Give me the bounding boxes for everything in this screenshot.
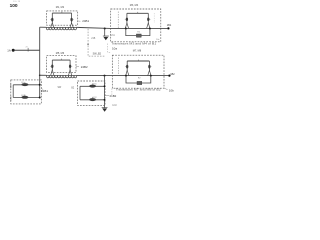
shunt box lower middle dashed (78, 81, 106, 106)
svg-text:GN2: GN2 (112, 105, 117, 107)
inner dashed line right faint (153, 13, 155, 23)
svg-text:SW_B2: SW_B2 (93, 52, 102, 55)
wire gate bar upper right (127, 12, 148, 14)
svg-text:M1, M2: M1, M2 (56, 6, 65, 9)
inductor L2 bottom meander (47, 75, 77, 78)
wire shunt row 2 (13, 97, 40, 99)
node bus row2 (39, 97, 41, 99)
label 21B2 leader (105, 95, 109, 97)
svg-text:M10: M10 (21, 95, 25, 97)
wire top ground stub (104, 28, 106, 36)
svg-text:FIG. 1B: FIG. 1B (13, 1, 21, 3)
dashed line node blob (88, 44, 89, 45)
dashed remnant below lower box (111, 89, 113, 96)
output node 1B2 (168, 74, 170, 76)
wire input (15, 49, 40, 51)
node bypass right (149, 27, 151, 29)
transistor M9 (21, 82, 28, 86)
svg-text:M3, M4: M3, M4 (130, 4, 139, 7)
transistor M12 (89, 97, 96, 101)
svg-text:SW2: SW2 (9, 96, 11, 102)
label 24B2 leader (76, 65, 79, 67)
svg-text:1A: 1A (7, 49, 11, 53)
svg-text:10b: 10b (169, 88, 174, 92)
wire bottom shunt bus (104, 76, 106, 108)
svg-text:M11: M11 (93, 83, 97, 85)
transistor M3 (125, 13, 129, 28)
switch box upper right dashed (111, 9, 161, 42)
wire bypass loop lower (126, 76, 151, 83)
svg-text:1B2: 1B2 (170, 73, 175, 76)
svg-text:Transistors M7 and M8 of B2: Transistors M7 and M8 of B2 (116, 88, 162, 92)
wire bus vertical (39, 27, 41, 97)
svg-text:M5, M6: M5, M6 (56, 52, 65, 55)
wire bottom main line (40, 74, 169, 76)
leader to 10b (164, 88, 168, 89)
switch box SW_B1 dashed (47, 11, 78, 25)
ground top (103, 36, 109, 40)
dashed remnant left of 10a (108, 44, 112, 53)
switch box SW_B2 dashed (lower middle series) (47, 56, 76, 73)
inner dashed line left lower (118, 58, 120, 75)
resistor R2 (137, 81, 142, 84)
transistor M4 (147, 13, 151, 28)
output node 1B1 (167, 27, 169, 29)
wire shunt row 3 (80, 85, 105, 87)
transistor M1 (50, 13, 54, 28)
input terminal dot (12, 49, 15, 52)
inner dashed line left (117, 12, 119, 29)
node bus row1 (39, 84, 41, 86)
transistor M10 (21, 95, 28, 99)
node tick 28 (27, 48, 29, 52)
svg-text:1B1: 1B1 (167, 24, 172, 27)
wire left rail (12, 85, 14, 98)
node bus row4 (104, 99, 106, 101)
svg-text:M9: M9 (21, 82, 24, 84)
wire bypass loop upper (126, 28, 150, 35)
svg-text:M7, M8: M7, M8 (133, 50, 142, 53)
transistor M2 (70, 13, 74, 28)
dashed control line vertical (88, 29, 105, 56)
node bypass right lower (150, 75, 152, 77)
svg-text:Transistors M3 and M4 of B1: Transistors M3 and M4 of B1 (111, 41, 157, 45)
svg-text:M12: M12 (93, 97, 97, 99)
wire gate bar top cell (52, 12, 71, 14)
svg-text:10a: 10a (112, 47, 117, 51)
node bottom shunt (104, 75, 106, 77)
shunt box lower left dashed (11, 80, 42, 104)
wire left rail 2 (79, 86, 81, 100)
transistor M11 (89, 83, 96, 87)
wire gate bar lower right (127, 60, 149, 62)
node bottom tee (39, 74, 41, 76)
node bypass left (125, 27, 127, 29)
svg-text:SW1: SW1 (9, 84, 11, 90)
ground bottom (102, 108, 108, 112)
node bus row3 (104, 85, 106, 87)
transistor M5 (50, 60, 54, 76)
wire shunt row 1 (13, 84, 40, 86)
svg-text:21B2: 21B2 (110, 94, 117, 98)
node top shunt (104, 27, 106, 29)
label 21B1 leader (41, 88, 43, 90)
svg-text:24B2: 24B2 (81, 65, 88, 69)
transistor M6 (68, 60, 72, 76)
resistor R1 (136, 34, 141, 37)
transistor M7 (125, 61, 129, 76)
svg-text:21B: 21B (91, 38, 96, 40)
transistor M8 (148, 61, 152, 76)
svg-text:21B1: 21B1 (41, 89, 48, 93)
wire gate bar bottom cell (52, 59, 70, 61)
wire top main line (40, 27, 168, 28)
node bypass left lower (125, 75, 127, 77)
switch box lower right dashed (112, 55, 164, 88)
svg-text:24B1: 24B1 (82, 19, 89, 23)
wire shunt row 4 (80, 99, 105, 101)
inductor L1 top meander (46, 27, 76, 30)
label 24B1 leader (78, 20, 81, 22)
svg-text:100: 100 (10, 3, 18, 9)
